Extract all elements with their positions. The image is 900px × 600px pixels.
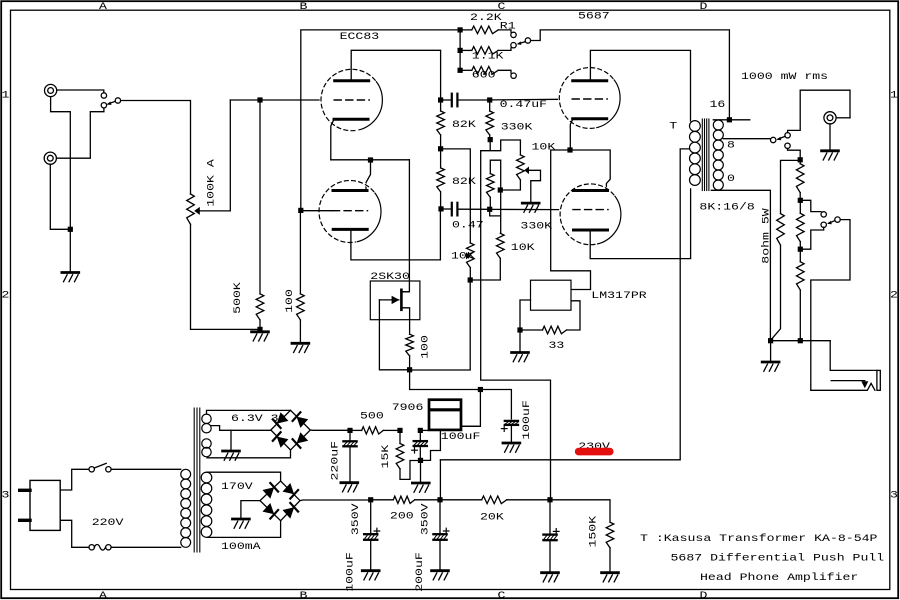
wire common to output jack xyxy=(788,90,850,132)
junction input grounds xyxy=(68,227,73,232)
svg-text:220V: 220V xyxy=(92,516,125,528)
svg-text:100uF: 100uF xyxy=(441,430,481,442)
U2b cathode bar xyxy=(574,189,608,192)
wire CCS drain line down xyxy=(403,160,410,292)
wire cap left lower xyxy=(444,208,452,210)
svg-text:330K: 330K xyxy=(520,220,553,232)
T secondary 16 ohm tap xyxy=(713,119,750,121)
U1a plate lead to coupling node xyxy=(351,50,440,97)
wire pot bottom to ground node xyxy=(191,224,258,329)
svg-text:82K: 82K xyxy=(452,118,477,130)
switch R1 contact 600 xyxy=(511,73,516,78)
svg-text:100K A: 100K A xyxy=(205,158,217,206)
wire cathodes to CCS drain line xyxy=(331,159,410,161)
wire wiper to grid line xyxy=(200,100,231,211)
svg-text:ECC83: ECC83 xyxy=(340,30,380,42)
svg-text:10K: 10K xyxy=(511,242,536,254)
Q1 channel bar xyxy=(400,290,403,310)
label 100uF rail xyxy=(520,400,532,440)
title line 1 xyxy=(640,532,877,544)
label 330K lower xyxy=(520,220,553,232)
wire tap1 to attenuator switch xyxy=(803,200,821,211)
wire R1 common to 16 ohm tap xyxy=(531,30,730,117)
wire J1 to input switch contact xyxy=(57,90,104,93)
svg-text:8: 8 xyxy=(727,139,735,151)
wire grid line to ECC83 grid xyxy=(230,99,321,101)
junction feedback / U1b grid xyxy=(298,208,303,213)
ground output bus xyxy=(762,362,779,371)
wire ground node to ground xyxy=(420,463,422,482)
svg-text:5687 Differential Push Pull: 5687 Differential Push Pull xyxy=(671,552,885,564)
label 230V xyxy=(578,440,611,452)
wire junction to ground xyxy=(69,232,71,272)
T secondary winding xyxy=(713,120,723,190)
svg-text:0.47: 0.47 xyxy=(452,219,484,231)
svg-text:200uF: 200uF xyxy=(413,552,425,592)
resistor divider R c xyxy=(797,252,805,338)
wire to U2b grid xyxy=(492,208,559,210)
wire divider top to 8ohm 5W xyxy=(781,160,798,213)
resistor 600 (feedback) xyxy=(463,67,511,75)
label 0.47uF xyxy=(500,98,547,110)
svg-text:20K: 20K xyxy=(480,511,505,523)
wire attenuator common to phone plug sleeve xyxy=(811,220,850,391)
svg-text:T: T xyxy=(669,120,677,132)
svg-text:33: 33 xyxy=(549,339,565,351)
attenuator switch contact lo xyxy=(821,222,826,227)
junction 100uF 350V xyxy=(368,497,373,502)
label 330K upper xyxy=(501,121,534,133)
wire to U2a grid xyxy=(492,98,559,101)
svg-text:1000 mW rms: 1000 mW rms xyxy=(741,70,828,82)
svg-text:1: 1 xyxy=(2,89,10,101)
output switch arm xyxy=(777,136,786,140)
svg-text:B: B xyxy=(300,589,308,600)
phone plug sleeve rail xyxy=(811,383,875,390)
fuse contact a xyxy=(89,545,94,550)
label 200 xyxy=(390,510,414,522)
resistor 15K xyxy=(396,433,404,469)
svg-text:LM317PR: LM317PR xyxy=(591,289,646,301)
pot 10K upper wiper arrow xyxy=(524,167,529,175)
svg-text:100: 100 xyxy=(284,289,296,313)
title line 2 xyxy=(671,552,885,564)
junction 0.47uF / 330K upper xyxy=(487,97,492,102)
wire jog grid node to pot 10K lower xyxy=(490,212,501,216)
wire 100uF to ground xyxy=(510,426,512,441)
junction 82K midpoint xyxy=(438,146,443,151)
wire cap right xyxy=(458,99,487,101)
wire ground node jog to 7906 gnd pin xyxy=(423,430,440,460)
junction bias divider xyxy=(547,497,552,502)
svg-text:1: 1 xyxy=(890,89,898,101)
phone plug tip xyxy=(877,370,880,390)
svg-text:100uF: 100uF xyxy=(520,400,532,440)
pot wiper arrow xyxy=(194,207,200,215)
Q1 source lead xyxy=(401,308,409,334)
bias bridge rectifier D1-D4 xyxy=(271,410,311,450)
label 10K upper xyxy=(532,141,557,153)
input jack J2 (lower RCA) xyxy=(44,152,56,164)
fuse element xyxy=(94,545,105,551)
output switch contact 8 ohm xyxy=(771,137,776,142)
fuse contact b xyxy=(106,545,111,550)
capacitor 0.47uF upper xyxy=(452,94,458,107)
resistor 100 (Q1 source) xyxy=(406,334,414,367)
label ECC83 xyxy=(340,30,380,42)
svg-text:350V: 350V xyxy=(419,502,431,535)
ground 7906 node xyxy=(412,483,429,492)
T primary winding xyxy=(690,121,701,186)
wire bus to ground xyxy=(770,343,772,361)
input select switch SW1 contact a xyxy=(101,93,106,98)
Q1 drain lead xyxy=(401,291,409,293)
triode U2b 5687 lower envelope xyxy=(560,184,621,245)
U1a plate bar xyxy=(335,79,369,82)
wire junction down to 500K xyxy=(259,103,261,294)
svg-text:2: 2 xyxy=(2,289,10,301)
svg-text:A: A xyxy=(99,589,108,600)
wire 500K to ground node xyxy=(259,320,261,327)
svg-text:82K: 82K xyxy=(452,175,477,187)
wire wiper to ground xyxy=(529,170,541,202)
resistor divider R a xyxy=(796,162,804,197)
wire -6V rail to 100uF xyxy=(483,390,511,419)
wire pot 10K bottom to balance node xyxy=(473,258,501,280)
resistor 150K xyxy=(606,522,614,571)
junction B+ feed xyxy=(437,497,442,502)
power switch contact a xyxy=(89,467,94,472)
svg-text:2: 2 xyxy=(890,289,898,301)
wire jog 330K to pot top xyxy=(481,140,521,155)
potentiometer 100K A (volume) xyxy=(187,194,195,224)
wire 7906 output pin xyxy=(461,425,478,427)
capacitor 200uF 350V xyxy=(433,502,449,569)
wire junction to ground xyxy=(519,333,521,352)
resistor 33 xyxy=(523,301,580,334)
mains plug xyxy=(20,480,61,530)
junction ground node 7906 xyxy=(418,458,423,463)
U1a cathode bar xyxy=(334,118,368,121)
label 220V xyxy=(92,516,125,528)
svg-text:R1: R1 xyxy=(500,20,516,32)
junction 330K / pot 10K upper xyxy=(488,137,493,142)
junction feedback / 16 tap xyxy=(727,117,732,122)
svg-text:2SK30: 2SK30 xyxy=(370,270,410,282)
capacitor 100uF (7906) xyxy=(412,433,428,458)
svg-text:500K: 500K xyxy=(231,281,243,314)
ground input jacks xyxy=(62,273,79,282)
wire 82K midpoint to balance pot xyxy=(443,149,470,243)
wire fuse to transformer primary bottom xyxy=(111,546,181,548)
wire feedback line (16 ohm tap to 2.2K) xyxy=(301,30,458,211)
label 1000 mW rms xyxy=(741,70,828,82)
U1a cathode lead xyxy=(331,119,334,160)
label 82K lower xyxy=(452,175,477,187)
T secondary 8 ohm tap xyxy=(723,138,770,140)
svg-text:D: D xyxy=(700,589,708,600)
wire switch to transformer primary top xyxy=(111,468,181,470)
junction 15K xyxy=(397,428,402,433)
label 100uF 350V xyxy=(344,552,356,592)
ground 100uF 350V xyxy=(362,571,379,580)
potentiometer 10K balance (lower left) xyxy=(467,243,475,277)
svg-text:1.1K: 1.1K xyxy=(472,50,505,62)
capacitor 220uF xyxy=(343,433,357,481)
junction Q1 gate/source/100 xyxy=(407,367,412,372)
capacitor 100uF (-6V rail) xyxy=(501,421,518,432)
wire grid-bias feed (long vertical) xyxy=(481,151,551,498)
wire bias bridge output xyxy=(310,429,347,431)
U3 left pin wire xyxy=(520,300,531,327)
ground 100uF rail xyxy=(503,443,520,452)
transistor Q1 2SK30 box xyxy=(370,281,420,320)
wire 15K bottom jog to ground node xyxy=(400,461,418,480)
wire SW1 common to volume pot top xyxy=(121,101,191,195)
junction 1.1K xyxy=(458,48,463,53)
U2a grid (dashed) xyxy=(572,98,607,100)
label 600 xyxy=(472,69,496,81)
svg-text:3: 3 xyxy=(2,489,10,501)
label 100 Q1 xyxy=(419,335,431,359)
label 200uF 350V xyxy=(413,552,425,592)
ground 220uF xyxy=(341,483,358,492)
label 82K upper xyxy=(452,118,477,130)
label 100mA xyxy=(221,540,262,552)
ground 150K xyxy=(602,573,619,582)
junction divider top xyxy=(798,157,803,162)
svg-text:200: 200 xyxy=(390,510,414,522)
transformer T core xyxy=(702,119,709,191)
U1b plate lead to coupling node xyxy=(351,212,441,260)
wire J2 to switch contact b xyxy=(57,108,104,158)
input select switch SW1 arm xyxy=(107,101,116,105)
PT 6.3V winding xyxy=(202,414,211,457)
wire 170V top to bridge xyxy=(207,472,281,481)
label 150K xyxy=(587,515,599,548)
wire headphone contact to divider xyxy=(788,149,801,158)
junction balance pot bottom xyxy=(468,277,473,282)
label 8ohm 5W xyxy=(760,207,772,263)
ground 6.3V tap xyxy=(223,451,240,460)
ground LM317 xyxy=(512,353,529,362)
U2a plate lead to OPT primary top xyxy=(590,50,690,121)
PT 170V winding xyxy=(201,472,212,537)
ground pot wiper upper xyxy=(522,203,539,212)
wire balance node down to CCS source row xyxy=(412,283,470,370)
label 0 xyxy=(727,172,735,184)
resistor 20K xyxy=(443,496,548,504)
ground 500K / pot xyxy=(252,332,269,341)
phone plug ring rail with arrow xyxy=(831,381,868,389)
pot balance wiper arrow xyxy=(466,252,471,259)
U1b cathode bar xyxy=(333,189,367,192)
label 220uF xyxy=(329,441,341,481)
U2b plate lead to OPT primary bottom xyxy=(590,189,690,259)
triode U1b ECC83 lower envelope xyxy=(319,180,381,242)
svg-text:220uF: 220uF xyxy=(329,441,341,481)
wire J2 ground drop xyxy=(50,164,68,229)
wire jack to ground xyxy=(829,124,831,151)
capacitor bias filter xyxy=(543,502,559,571)
svg-text:Head Phone Amplifier: Head Phone Amplifier xyxy=(700,571,858,583)
label 6.3V 3A xyxy=(231,412,287,424)
wire junction to 100 ohm xyxy=(299,213,301,294)
switch R1 arm xyxy=(517,41,526,45)
label R1 xyxy=(500,20,516,32)
label LM317PR xyxy=(591,289,646,301)
wire source node down to -6V rail xyxy=(410,372,478,389)
power transformer core xyxy=(194,408,200,552)
T secondary 0 tap xyxy=(711,190,770,338)
ground bus wire xyxy=(773,340,830,342)
U2b plate bar xyxy=(574,229,608,232)
svg-text:B: B xyxy=(300,1,308,13)
svg-text:8ohm 5W: 8ohm 5W xyxy=(760,207,772,263)
wire 6.3V tap ground drop xyxy=(230,430,232,449)
triode U1a ECC83 upper envelope xyxy=(321,69,382,130)
junction U1a plate / cap / 82K xyxy=(438,97,443,102)
junction 5687 cathodes xyxy=(567,147,572,152)
output switch contact headphone xyxy=(785,143,790,148)
junction 7906 input cap xyxy=(418,428,423,433)
title line 3 xyxy=(700,571,858,583)
junction 220uF xyxy=(347,428,352,433)
U1b grid (dashed) xyxy=(333,210,368,212)
wire R1 ladder vertical xyxy=(459,30,461,70)
wire node to U1b cathode xyxy=(366,163,371,189)
power switch contact b xyxy=(106,467,111,472)
junction 600 xyxy=(458,68,463,73)
svg-text:T :Kasusa Transformer KA-8-54P: T :Kasusa Transformer KA-8-54P xyxy=(640,532,877,544)
wire cap left xyxy=(443,99,451,101)
wire 6.3V bottom to bias bridge xyxy=(207,450,291,458)
junction divider tap 1 xyxy=(798,198,803,203)
input select switch SW1 contact b xyxy=(101,103,106,108)
ground mains bridge xyxy=(233,519,250,528)
wire 330K lower top run xyxy=(490,160,500,233)
wire bus to 150K xyxy=(553,500,610,522)
svg-text:350V: 350V xyxy=(350,502,362,535)
svg-text:3: 3 xyxy=(890,489,898,501)
svg-text:330K: 330K xyxy=(501,121,534,133)
resistor 330K upper xyxy=(486,103,494,137)
wire pot bottom to node xyxy=(503,180,521,190)
junction U1b plate / cap / 82K xyxy=(438,206,443,211)
potentiometer 10K upper xyxy=(517,155,525,180)
attenuator switch arm xyxy=(827,221,835,225)
ground bias filter cap xyxy=(542,573,559,582)
junction ground bus / 0 tap xyxy=(768,338,773,343)
svg-text:0: 0 xyxy=(727,172,735,184)
wire 6.3V top to bias bridge xyxy=(207,410,291,414)
switch R1 contact 1.1K xyxy=(511,43,516,48)
resistor 330K lower (up from grid node) xyxy=(487,174,495,207)
label 100uF 7906 xyxy=(441,430,481,442)
label 100 xyxy=(284,289,296,313)
svg-text:7906: 7906 xyxy=(392,401,424,413)
label 8 xyxy=(727,139,735,151)
svg-text:10K: 10K xyxy=(532,141,557,153)
svg-text:150K: 150K xyxy=(587,515,599,548)
label 350V right xyxy=(419,502,431,535)
ground 200uF 350V xyxy=(432,571,449,580)
wire gate to source node xyxy=(379,300,407,370)
attenuator switch contact hi xyxy=(821,212,826,217)
wire 6.3V tap jog xyxy=(211,426,271,431)
wire B+ riser 230V xyxy=(439,460,441,497)
U2a plate bar xyxy=(573,79,607,82)
U2b grid (dashed) xyxy=(573,209,608,211)
junction ground bus / divider xyxy=(798,338,803,343)
resistor 82K upper xyxy=(437,103,445,147)
U1a grid (dashed) xyxy=(334,99,369,101)
label T xyxy=(669,120,677,132)
wire plug to power switch xyxy=(60,469,89,490)
junction cathodes node xyxy=(368,157,373,162)
regulator U4 7906 box xyxy=(429,400,461,430)
label 170V xyxy=(221,480,254,492)
svg-text:500: 500 xyxy=(360,410,384,422)
U2a cathode bar xyxy=(573,117,607,120)
wire -6V rail to 7906 output xyxy=(461,392,480,426)
svg-text:2.2K: 2.2K xyxy=(470,11,503,23)
regulator U3 LM317 box xyxy=(531,280,572,310)
resistor 500 xyxy=(353,427,398,434)
triode U2a 5687 upper envelope xyxy=(559,68,620,129)
resistor divider R b xyxy=(797,203,805,247)
svg-text:100uF: 100uF xyxy=(344,552,356,592)
capacitor 100uF 350V xyxy=(364,502,380,569)
svg-text:5687: 5687 xyxy=(578,10,610,22)
attenuator switch common xyxy=(835,217,840,222)
resistor 8ohm 5W xyxy=(777,214,785,246)
wire cathode node to U2b cathode xyxy=(573,150,611,189)
svg-text:A: A xyxy=(99,1,108,13)
switch R1 common xyxy=(525,38,530,43)
output switch common xyxy=(785,133,790,138)
U1b plate bar xyxy=(333,228,367,231)
svg-text:16: 16 xyxy=(710,99,726,111)
label 2SK30 xyxy=(370,270,410,282)
label 10K lower right xyxy=(511,242,536,254)
wire 7906 input pin xyxy=(423,429,429,431)
switch R1 contact 2.2K xyxy=(511,32,516,37)
svg-text:D: D xyxy=(700,1,708,13)
input jack J1 (upper RCA) xyxy=(45,84,57,96)
junction 0.47 / 330K lower xyxy=(487,207,492,212)
label 500K xyxy=(231,281,243,314)
U2a cathode lead xyxy=(570,119,573,148)
label 20K xyxy=(480,511,505,523)
label 5687 xyxy=(578,10,610,22)
junction grid / 500K xyxy=(257,97,262,102)
label 10K balance xyxy=(451,250,476,262)
input select switch SW1 common xyxy=(115,98,120,103)
label 0.47 xyxy=(452,219,484,231)
red highlight mark on 230V xyxy=(575,448,614,456)
junction 2.2K xyxy=(458,27,463,32)
label 16 xyxy=(710,99,726,111)
svg-text:600: 600 xyxy=(472,69,496,81)
wire 100 to ground xyxy=(299,320,301,342)
ground output jack xyxy=(822,151,839,160)
mains bridge rectifier D5-D8 xyxy=(260,481,300,521)
resistor 82K lower xyxy=(437,151,445,206)
junction divider tap 2 xyxy=(798,247,803,252)
potentiometer 10K lower right xyxy=(497,233,505,258)
wire cap right lower xyxy=(458,208,487,210)
